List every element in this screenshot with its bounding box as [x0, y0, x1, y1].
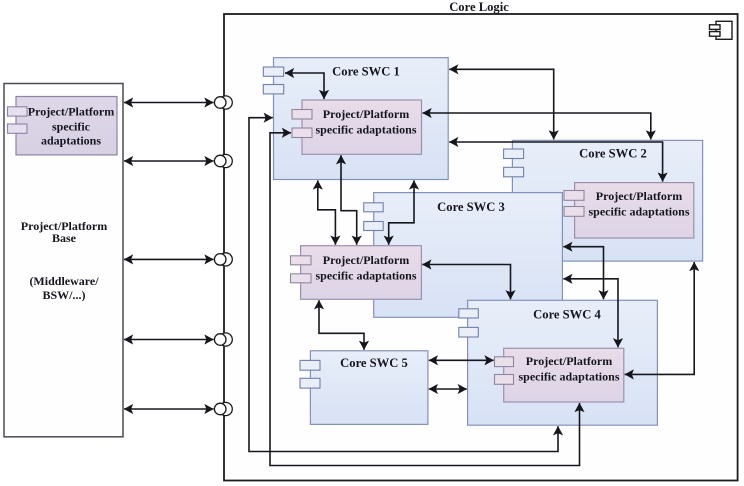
- svg-text:Core SWC 5: Core SWC 5: [340, 356, 408, 370]
- wire: SWC1 bottom to SWC3 adaptations top (right jog): [389, 180, 414, 244]
- wire: SWC1 right edge to SWC2 adaptations top: [449, 142, 662, 182]
- wire: SWC3 adaptations bottom to SWC5 top (jog): [319, 300, 364, 350]
- svg-text:Core SWC 2: Core SWC 2: [579, 147, 647, 161]
- Core Logic container box: [224, 14, 738, 481]
- wire: SWC1 left edge to SWC4 bottom (long loop): [249, 118, 558, 452]
- Core SWC 2 adaptations box (pink): [575, 183, 694, 238]
- Core SWC 3 adaptations box (pink): [301, 246, 422, 300]
- Core SWC 1 box: [274, 58, 449, 180]
- Core SWC 2 component icon tabs: [504, 149, 524, 177]
- Core SWC 4 component icon tabs: [459, 309, 479, 337]
- svg-text:Core Logic: Core Logic: [449, 0, 509, 14]
- wire: SWC3 adaptations right edge to SWC4 top: [422, 265, 510, 300]
- svg-text:Core SWC 1: Core SWC 1: [332, 65, 400, 79]
- wire: base to port 4: [124, 339, 214, 341]
- wire: SWC1 adaptations tab to SWC4 adaptations bottom (long loop): [270, 133, 580, 466]
- wire: SWC1 right edge to SWC2 top: [449, 69, 554, 139]
- svg-text:specific adaptations: specific adaptations: [315, 123, 416, 137]
- Core SWC 4 adaptations box (pink): [504, 348, 624, 402]
- svg-text:Base: Base: [52, 231, 77, 245]
- Core SWC 5 box: [310, 351, 428, 425]
- svg-text:BSW/...): BSW/...): [42, 288, 85, 302]
- Core SWC 2 box: [512, 140, 702, 261]
- svg-text:(Middleware/: (Middleware/: [29, 274, 99, 288]
- Core SWC 1 adaptations icon tabs: [292, 110, 312, 138]
- Project/Platform Base box: [4, 84, 123, 437]
- wire: base to port 5: [124, 408, 214, 410]
- Base adaptations component icon tabs: [8, 107, 28, 134]
- wire: SWC1 port tab to SWC1 adaptations top: [285, 73, 324, 99]
- wire: base to port 3: [124, 258, 214, 260]
- port 5 ball-socket: [214, 402, 232, 415]
- svg-text:Project/Platform: Project/Platform: [323, 253, 409, 267]
- svg-text:specific adaptations: specific adaptations: [315, 269, 416, 283]
- svg-text:specific adaptations: specific adaptations: [518, 370, 619, 384]
- Core SWC 3 adaptations icon tabs: [291, 256, 312, 283]
- Project/Platform Base label: [21, 219, 107, 302]
- port 3 ball-socket: [214, 253, 232, 266]
- wire: SWC1 bottom to SWC3 adaptations top (jog): [318, 180, 336, 244]
- wire: SWC3 right edge to SWC4 top: [563, 247, 603, 300]
- Base adaptations box (pink, in Project/Platform Base): [16, 97, 117, 155]
- svg-text:Project/Platform: Project/Platform: [596, 189, 682, 203]
- svg-text:Project/Platform: Project/Platform: [28, 105, 114, 119]
- port 2 ball-socket: [214, 154, 232, 167]
- svg-text:Core SWC 3: Core SWC 3: [437, 200, 505, 214]
- wire: SWC5 right edge to SWC4 adaptations tab: [429, 359, 494, 361]
- svg-text:Project/Platform: Project/Platform: [323, 107, 409, 121]
- svg-text:Project/Platform: Project/Platform: [526, 354, 612, 368]
- Core SWC 2 adaptations icon tabs: [564, 191, 584, 217]
- port 1 ball-socket: [214, 96, 232, 109]
- Core SWC 3 component icon tabs: [364, 203, 384, 231]
- Core SWC 1 adaptations box (pink): [302, 100, 422, 154]
- Base adaptations label: [28, 105, 114, 148]
- Core Logic component icon: [710, 21, 733, 39]
- wire: base to port 2: [124, 160, 214, 162]
- port 4 ball-socket: [214, 333, 232, 346]
- wire: SWC1 adaptations right edge to SWC2 top: [423, 113, 651, 139]
- svg-text:specific: specific: [52, 120, 91, 134]
- wire: SWC5 right edge to SWC4 left edge: [429, 388, 467, 390]
- Core SWC 4 box: [468, 300, 658, 425]
- wire: base to port 1: [124, 102, 214, 104]
- Core SWC 5 component icon tabs: [300, 360, 320, 388]
- Core SWC 4 adaptations icon tabs: [495, 357, 514, 385]
- Core SWC 3 box: [374, 193, 563, 318]
- Core SWC 1 component icon tabs: [263, 67, 283, 94]
- wire: SWC1 adaptations bottom to SWC3 adaptations top (jog): [341, 155, 357, 245]
- svg-text:specific adaptations: specific adaptations: [588, 205, 689, 219]
- svg-text:adaptations: adaptations: [41, 134, 101, 148]
- svg-text:Core SWC 4: Core SWC 4: [533, 308, 601, 322]
- wire: SWC3 right edge to SWC4 adaptations top: [563, 279, 618, 348]
- wire: SWC4 adaptations right edge to SWC2 bottom: [625, 262, 695, 374]
